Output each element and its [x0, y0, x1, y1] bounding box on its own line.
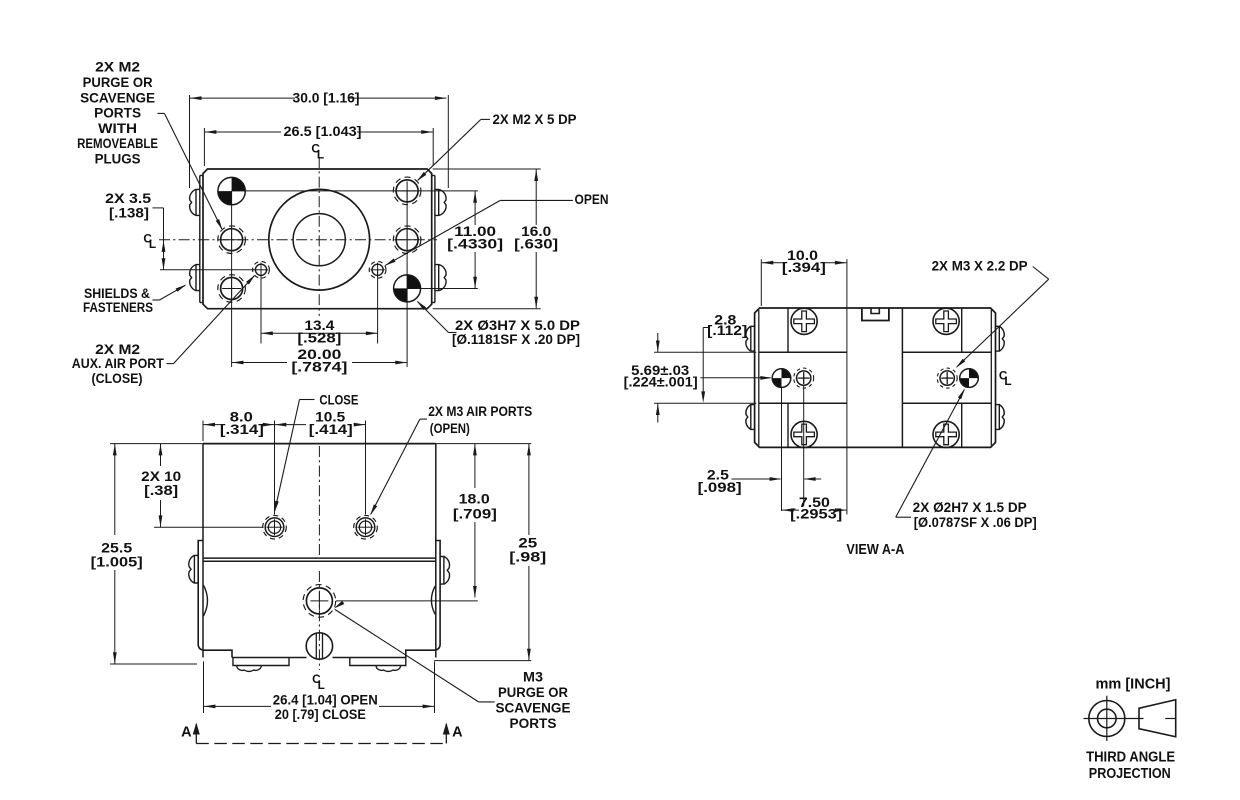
svg-text:PURGE OR: PURGE OR — [498, 685, 568, 700]
svg-text:2X 10: 2X 10 — [141, 469, 181, 484]
svg-text:[.7874]: [.7874] — [291, 360, 347, 375]
svg-text:PORTS: PORTS — [94, 106, 141, 121]
svg-text:VIEW A-A: VIEW A-A — [846, 542, 904, 558]
svg-text:PROJECTION: PROJECTION — [1089, 766, 1171, 782]
svg-text:26.4 [1.04] OPEN: 26.4 [1.04] OPEN — [273, 692, 378, 707]
svg-text:OPEN: OPEN — [575, 192, 609, 207]
svg-text:[.709]: [.709] — [453, 507, 497, 522]
svg-text:2X M2: 2X M2 — [95, 342, 140, 357]
svg-text:[.224±.001]: [.224±.001] — [624, 374, 698, 389]
svg-text:PURGE OR: PURGE OR — [83, 75, 153, 90]
svg-text:2X 3.5: 2X 3.5 — [105, 191, 152, 206]
svg-text:PLUGS: PLUGS — [95, 152, 141, 167]
svg-text:L: L — [149, 237, 156, 251]
svg-text:L: L — [318, 678, 325, 692]
svg-text:[.38]: [.38] — [144, 483, 178, 498]
svg-text:CLOSE: CLOSE — [319, 392, 358, 407]
svg-text:18.0: 18.0 — [459, 491, 490, 506]
svg-text:[.314]: [.314] — [220, 422, 264, 437]
svg-text:30.0 [1.16]: 30.0 [1.16] — [293, 90, 360, 105]
svg-text:SCAVENGE: SCAVENGE — [80, 90, 155, 105]
svg-text:WITH: WITH — [98, 121, 137, 136]
svg-text:[.098]: [.098] — [698, 480, 742, 495]
svg-text:[.112]: [.112] — [707, 323, 747, 338]
svg-text:20 [.79] CLOSE: 20 [.79] CLOSE — [275, 707, 366, 722]
svg-text:2X M3 X 2.2 DP: 2X M3 X 2.2 DP — [932, 258, 1028, 273]
svg-text:2X Ø2H7 X 1.5 DP: 2X Ø2H7 X 1.5 DP — [913, 500, 1027, 515]
svg-text:PORTS: PORTS — [510, 716, 557, 731]
svg-text:A: A — [452, 724, 463, 740]
svg-text:2X M3 AIR PORTS: 2X M3 AIR PORTS — [428, 404, 532, 419]
svg-text:REMOVEABLE: REMOVEABLE — [77, 136, 158, 151]
svg-text:2X Ø3H7 X 5.0 DP: 2X Ø3H7 X 5.0 DP — [455, 318, 580, 333]
svg-text:[1.005]: [1.005] — [91, 555, 143, 570]
svg-text:FASTENERS: FASTENERS — [83, 300, 153, 315]
svg-text:M3: M3 — [523, 669, 544, 684]
svg-text:[.630]: [.630] — [514, 237, 558, 252]
svg-text:[.394]: [.394] — [782, 260, 826, 275]
svg-text:[.98]: [.98] — [509, 549, 546, 564]
svg-text:AUX. AIR PORT: AUX. AIR PORT — [72, 356, 165, 371]
svg-text:[.2953]: [.2953] — [790, 506, 842, 521]
svg-text:[Ø.1181SF X .20 DP]: [Ø.1181SF X .20 DP] — [452, 332, 580, 347]
svg-text:(CLOSE): (CLOSE) — [92, 371, 143, 386]
svg-text:26.5 [1.043]: 26.5 [1.043] — [284, 124, 362, 139]
svg-text:2X M2: 2X M2 — [95, 60, 140, 75]
svg-text:[.4330]: [.4330] — [447, 237, 503, 252]
svg-text:[.528]: [.528] — [297, 330, 341, 345]
svg-text:SCAVENGE: SCAVENGE — [496, 701, 571, 716]
svg-text:THIRD ANGLE: THIRD ANGLE — [1086, 750, 1175, 766]
svg-text:L: L — [1004, 374, 1011, 388]
svg-text:(OPEN): (OPEN) — [430, 421, 470, 436]
svg-text:A: A — [181, 724, 192, 740]
svg-text:SHIELDS &: SHIELDS & — [84, 286, 150, 301]
svg-text:[.414]: [.414] — [309, 422, 353, 437]
svg-text:[.138]: [.138] — [109, 205, 149, 220]
svg-text:2X M2 X 5 DP: 2X M2 X 5 DP — [493, 112, 577, 127]
svg-text:mm [INCH]: mm [INCH] — [1096, 677, 1171, 693]
svg-text:[Ø.0787SF X .06 DP]: [Ø.0787SF X .06 DP] — [914, 515, 1037, 530]
svg-text:25.5: 25.5 — [101, 541, 133, 556]
svg-text:L: L — [317, 147, 324, 161]
